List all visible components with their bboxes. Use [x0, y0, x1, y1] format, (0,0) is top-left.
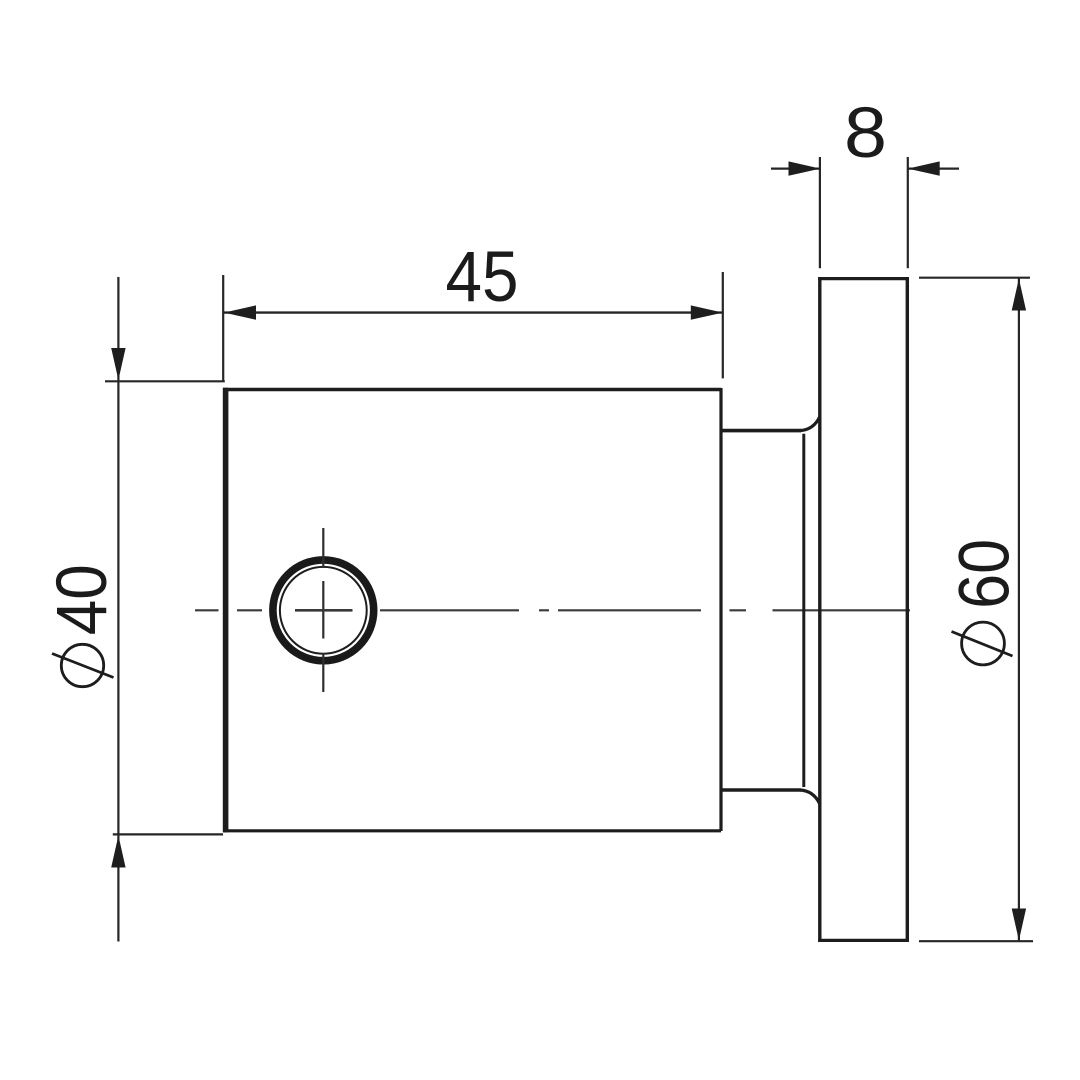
- dimension dia60: bottom arrowhead (down): [1012, 909, 1026, 941]
- dimension dia60: diameter symbol: [952, 622, 1013, 665]
- dimension dia40: bottom extension line: [113, 833, 223, 835]
- dimension 45: right arrowhead: [691, 305, 723, 319]
- hole centre mark vertical: [322, 528, 324, 692]
- mounting hole outer ring: [273, 560, 374, 661]
- svg-text:8: 8: [844, 94, 887, 173]
- neck bottom fillet: [800, 790, 820, 804]
- neck top edge: [721, 429, 801, 433]
- dimension 45: right extension line: [722, 272, 724, 378]
- wall flange outline: [818, 277, 909, 942]
- mounting hole inner circle: [280, 567, 367, 654]
- dimension 45: left arrowhead: [224, 305, 256, 319]
- dimension dia60: top arrowhead (up): [1012, 279, 1026, 311]
- dimension 45: left extension line: [222, 275, 224, 381]
- neck fillet tangent line: [802, 434, 805, 787]
- main body cylinder outline: [223, 388, 721, 833]
- neck top fillet: [800, 417, 820, 431]
- dimension 8: right extension line: [907, 157, 909, 268]
- dimension 8: left extension line: [819, 157, 821, 268]
- dimension 45: dimension line: [224, 311, 723, 313]
- dimension dia40: dimension line: [117, 277, 119, 942]
- dimension dia60: top extension line: [919, 277, 1030, 279]
- dimension 8: dimension line with outside tails: [771, 168, 959, 170]
- dimension dia60: dimension line: [1018, 279, 1020, 941]
- dimension dia40: bottom arrowhead (up): [111, 836, 125, 868]
- dimension 8: left arrowhead: [789, 161, 821, 175]
- dimension dia60: bottom extension line: [919, 940, 1033, 942]
- svg-text:45: 45: [446, 238, 519, 317]
- hole centre mark horizontal: [295, 609, 353, 612]
- dimension dia40: top extension line: [105, 380, 225, 382]
- dimension 8: right arrowhead: [908, 161, 940, 175]
- svg-text:40: 40: [43, 564, 122, 635]
- part centre line (dash-dot): [195, 609, 910, 611]
- dimension dia40: top arrowhead (down): [111, 348, 125, 380]
- neck bottom edge: [721, 788, 801, 792]
- dimension dia40: diameter symbol: [52, 644, 114, 686]
- svg-text:60: 60: [945, 539, 1024, 609]
